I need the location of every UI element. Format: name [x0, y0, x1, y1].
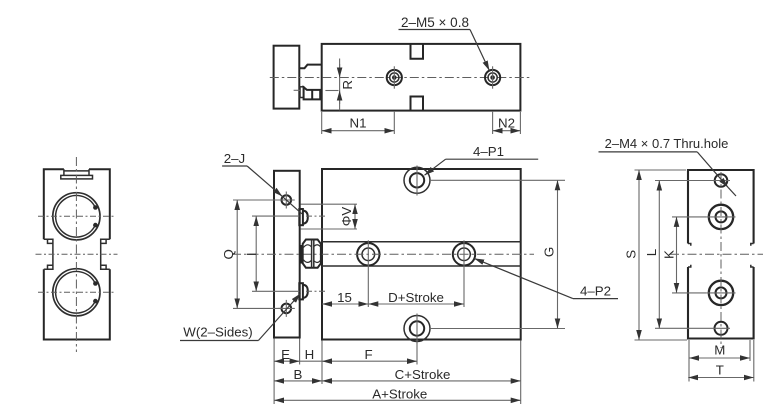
svg-text:L: L [644, 249, 659, 256]
svg-text:4–P2: 4–P2 [580, 284, 611, 299]
svg-text:Q: Q [221, 249, 236, 259]
svg-text:W(2–Sides): W(2–Sides) [183, 325, 252, 340]
svg-text:2–M4 × 0.7 Thru.hole: 2–M4 × 0.7 Thru.hole [605, 136, 729, 151]
svg-text:D+Stroke: D+Stroke [388, 290, 444, 305]
svg-text:T: T [716, 362, 724, 377]
svg-text:2–M5 × 0.8: 2–M5 × 0.8 [401, 15, 469, 30]
svg-text:B: B [293, 367, 302, 382]
svg-text:A+Stroke: A+Stroke [372, 386, 427, 401]
svg-text:15: 15 [337, 290, 352, 305]
svg-text:F: F [365, 347, 373, 362]
svg-text:N1: N1 [350, 116, 367, 131]
svg-text:2–J: 2–J [224, 151, 245, 166]
svg-text:S: S [624, 250, 639, 259]
svg-text:M: M [714, 343, 725, 358]
svg-text:E: E [281, 347, 290, 362]
svg-text:G: G [542, 247, 557, 257]
svg-text:H: H [305, 347, 315, 362]
svg-text:4–P1: 4–P1 [473, 144, 504, 159]
svg-text:I: I [244, 252, 259, 256]
svg-text:R: R [340, 80, 355, 90]
svg-text:N2: N2 [498, 115, 515, 130]
svg-text:C+Stroke: C+Stroke [395, 367, 451, 382]
svg-text:ΦV: ΦV [339, 207, 354, 227]
svg-text:K: K [661, 250, 676, 259]
